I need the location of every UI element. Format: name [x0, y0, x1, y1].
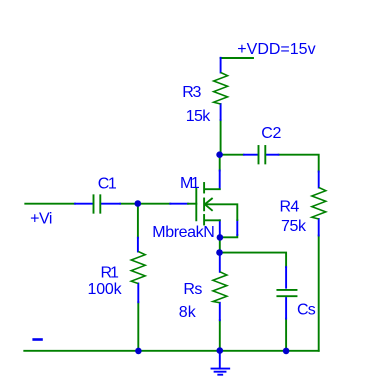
svg-text:R4: R4: [280, 199, 300, 216]
svg-text:100k: 100k: [88, 281, 123, 298]
svg-text:15k: 15k: [186, 108, 211, 125]
svg-text:M1: M1: [180, 175, 200, 192]
svg-text:+Vi: +Vi: [30, 211, 52, 228]
svg-text:C2: C2: [261, 125, 281, 142]
svg-text:75k: 75k: [281, 218, 307, 235]
svg-text:R1: R1: [101, 265, 120, 282]
svg-text:Rs: Rs: [183, 281, 202, 298]
svg-text:8k: 8k: [179, 304, 197, 321]
svg-text:C1: C1: [98, 176, 117, 193]
svg-text:R3: R3: [182, 84, 201, 101]
svg-text:Cs: Cs: [297, 302, 316, 319]
svg-text:+VDD=15v: +VDD=15v: [237, 41, 315, 58]
svg-text:MbreakN: MbreakN: [152, 224, 214, 241]
